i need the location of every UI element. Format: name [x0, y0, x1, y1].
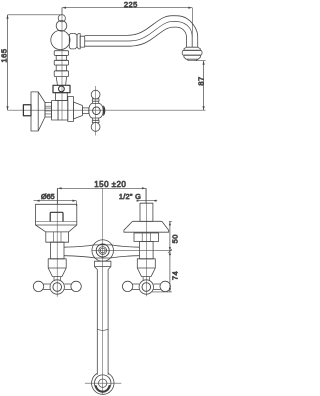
spout tip	[187, 59, 198, 61]
outlet inner circle	[94, 375, 111, 392]
right bonnet block	[137, 259, 155, 268]
side view centerline horizontal	[8, 109, 206, 111]
valve body main	[58, 101, 68, 121]
big ball	[51, 30, 70, 49]
spout collar	[95, 261, 111, 266]
svg-text:1/2" G: 1/2" G	[119, 192, 141, 201]
right flange disc	[124, 221, 169, 232]
small ball	[58, 15, 65, 22]
wall flange plate	[31, 92, 38, 131]
right handle hub	[139, 280, 153, 294]
outlet horizontal centerline	[85, 382, 121, 384]
column ring 2	[54, 60, 68, 65]
left escutcheon rect	[36, 204, 77, 225]
spout downpipe right	[107, 270, 109, 375]
handle bottom ball	[91, 123, 100, 132]
bridge tube bottom line	[64, 256, 140, 258]
left bonnet block	[48, 259, 66, 268]
bridge tube top line	[64, 245, 140, 247]
left escutcheon notch	[50, 212, 63, 221]
spout end flare	[184, 47, 200, 50]
svg-text:50: 50	[170, 234, 179, 243]
right cylinder	[140, 242, 154, 259]
outlet outer arc	[92, 373, 114, 394]
column ring neck 1	[56, 65, 66, 71]
hex facet lines	[45, 106, 52, 114]
column ring 1	[54, 71, 68, 77]
spout collar taper	[95, 267, 111, 270]
dim half inch line	[137, 200, 158, 202]
column taper	[56, 77, 66, 86]
right hex facets	[142, 233, 150, 242]
column neck	[56, 93, 68, 101]
right bonnet taper	[137, 268, 155, 277]
side view handle centerline	[95, 86, 97, 136]
spout end lower ring	[184, 55, 201, 59]
dim 74 ext bottom	[152, 291, 172, 293]
column ring neck 2	[56, 56, 66, 61]
right handle left arm	[132, 284, 139, 290]
left escutcheon rim	[36, 221, 77, 223]
svg-text:165: 165	[0, 48, 8, 62]
spout end torus	[182, 50, 202, 55]
dim 150 ext left	[57, 188, 59, 204]
spout tube top edge	[85, 16, 198, 48]
dim 165 ext top	[8, 14, 63, 16]
mid ball	[56, 21, 67, 32]
svg-text:225: 225	[124, 0, 138, 9]
left handle right ball	[71, 281, 81, 291]
handle top ball	[91, 90, 100, 99]
handle stem	[82, 108, 88, 114]
spout socket nut	[69, 34, 77, 49]
column base screw	[59, 86, 65, 92]
hub ring2	[96, 244, 109, 257]
right handle left ball	[122, 281, 132, 291]
dim 225 line	[62, 7, 192, 9]
left hex nut	[46, 232, 69, 242]
dim 225 ext left	[61, 8, 63, 15]
dim 150 ext right	[145, 188, 147, 203]
right neck	[142, 277, 152, 280]
column base block	[53, 85, 70, 92]
right handle hub inner	[142, 283, 151, 292]
left handle right arm	[64, 284, 71, 290]
spout tube middle line	[85, 21, 192, 47]
handle hub circle	[93, 107, 101, 115]
dim O65 line	[34, 200, 77, 206]
svg-text:150 ±20: 150 ±20	[94, 180, 126, 189]
dim 87 line	[203, 61, 205, 110]
svg-text:87: 87	[196, 76, 205, 85]
bonnet cone	[73, 102, 82, 119]
left handle left ball	[33, 281, 43, 291]
right valve centerline	[145, 188, 147, 296]
spout stem	[80, 36, 85, 47]
side view column centerline	[61, 8, 63, 121]
right hex nut	[134, 233, 159, 242]
bonnet collar	[68, 97, 74, 122]
handle top collar	[92, 99, 99, 104]
valve body left block	[52, 101, 59, 121]
svg-text:Ø65: Ø65	[41, 192, 55, 201]
handle front nub	[103, 105, 105, 116]
left handle hub inner	[53, 283, 62, 292]
svg-text:74: 74	[170, 271, 179, 280]
wall flange cone	[38, 92, 45, 131]
outlet dark crescent	[96, 386, 110, 392]
left handle left arm	[43, 284, 50, 290]
dim 50-74 line	[168, 221, 172, 292]
dim 50 ext top	[169, 220, 172, 222]
left handle hub	[50, 280, 64, 294]
left hex facets	[53, 232, 61, 242]
dim 165 line	[6, 15, 8, 110]
left cylinder	[50, 242, 64, 259]
spout downpipe left	[96, 270, 98, 375]
hub ring4	[100, 248, 105, 253]
dim 150 line	[58, 187, 146, 189]
right handle right ball	[160, 281, 170, 291]
outlet small circle	[99, 379, 107, 387]
column ring 3	[54, 51, 68, 56]
spout socket lobe	[77, 34, 80, 49]
right handle right arm	[154, 284, 161, 290]
spout centerline	[102, 188, 104, 394]
hub outer circle	[92, 240, 114, 262]
hub ring3	[99, 247, 107, 255]
spout pipe joint	[97, 329, 108, 330]
handle hub side	[89, 103, 103, 118]
right thread pipe	[140, 203, 153, 221]
left neck	[52, 277, 62, 280]
hex nut section	[45, 102, 52, 117]
left valve centerline	[56, 188, 58, 296]
left flange taper	[36, 225, 77, 232]
dim 225 ext right	[191, 8, 193, 47]
wall square nut	[23, 105, 31, 116]
spout tube bottom edge	[85, 27, 187, 47]
handle bottom collar	[92, 118, 99, 123]
left bonnet taper	[48, 268, 66, 277]
dim 87 ext top	[194, 60, 206, 62]
tube axis centerline	[92, 250, 172, 252]
